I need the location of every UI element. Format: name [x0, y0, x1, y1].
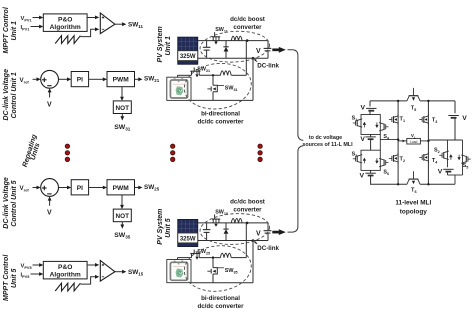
wire PV to boost bottom rail unit 1	[198, 57, 268, 59]
wire leg T1 T2	[397, 101, 399, 184]
wire V feedback to summer unit 5	[49, 199, 51, 206]
svg-text:PI: PI	[77, 77, 83, 84]
svg-text:dc/dc boost: dc/dc boost	[230, 198, 265, 205]
svg-text:dc/dc converter: dc/dc converter	[197, 303, 244, 310]
comparator unit 5	[100, 261, 115, 282]
battery V1 left	[366, 107, 376, 109]
wire Vref to summer unit 5	[33, 187, 39, 189]
node bidirectional midpoint unit 5	[212, 256, 214, 258]
dc output thick arrow unit 1	[272, 48, 279, 51]
wire V feedback to summer unit 1	[49, 91, 51, 98]
battery box wire unit 5	[167, 260, 191, 283]
svg-text:converter: converter	[233, 206, 262, 213]
svg-text:P&O: P&O	[58, 264, 72, 271]
svg-text:V: V	[438, 169, 443, 176]
svg-text:topology: topology	[400, 208, 427, 215]
boost converter dashed ellipse unit 1	[199, 29, 270, 64]
wire P&O to comparator unit 5	[87, 264, 96, 266]
svg-text:PV System: PV System	[157, 209, 164, 245]
wire load right	[420, 140, 428, 142]
wire battery to SW25 unit 5	[178, 257, 192, 259]
svg-text:11-level MLI: 11-level MLI	[395, 199, 431, 206]
battery icon unit 5	[170, 262, 187, 280]
bidirectional switch SW21 unit 1	[191, 71, 193, 75]
svg-text:Control Unit 1: Control Unit 1	[11, 72, 18, 118]
label Repeating Units	[22, 133, 39, 168]
svg-text:V: V	[47, 102, 52, 109]
PI controller box unit 5	[71, 180, 88, 195]
wire SW21 to inductor unit 1	[199, 74, 220, 76]
battery V right top	[448, 115, 458, 117]
boost switch SW15 mosfet unit 5	[212, 219, 214, 223]
svg-text:Algorithm: Algorithm	[50, 24, 81, 31]
repeating dots right column	[258, 144, 262, 148]
label DC-link unit 1	[255, 59, 258, 62]
wire inductor to DC-link unit 1	[231, 74, 246, 76]
node DC-link positive unit 1	[246, 39, 249, 42]
svg-text:MPPT Control: MPPT Control	[3, 254, 10, 301]
P&O Algorithm box unit 5	[43, 261, 87, 279]
svg-text:Unit 1: Unit 1	[165, 36, 172, 56]
bidirectional converter dashed ellipse unit 1	[182, 60, 254, 113]
svg-text:PWM: PWM	[113, 185, 130, 192]
svg-text:DC-link Voltage: DC-link Voltage	[3, 177, 10, 229]
svg-text:DC-link: DC-link	[257, 63, 279, 70]
svg-text:P&O: P&O	[58, 16, 72, 23]
node bidirectional midpoint unit 1	[212, 74, 214, 76]
PWM box unit 5	[107, 180, 135, 195]
wire PV to boost top rail unit 1	[198, 40, 268, 42]
svg-text:325W: 325W	[180, 54, 196, 60]
node load right	[427, 140, 429, 142]
wire PWM to NOT unit 1	[121, 87, 123, 99]
wire summer to PI unit 5	[59, 187, 69, 189]
battery V2 left	[365, 136, 375, 138]
bidirectional switch SW25 unit 5	[191, 254, 193, 258]
PV panel unit 1	[178, 37, 198, 64]
wire Vpv5 to P&O box	[33, 264, 42, 266]
PI controller box unit 1	[71, 72, 88, 87]
summing junction unit 1	[41, 70, 59, 88]
wire sawtooth to comparator unit 1	[80, 29, 96, 36]
wire bidirectional bottom rail unit 5	[191, 282, 253, 284]
svg-text:NOT: NOT	[116, 213, 130, 220]
switch SW35 unit 5	[212, 258, 214, 268]
transistor T2	[397, 153, 399, 155]
transistor T3	[427, 114, 429, 116]
wire load left	[398, 140, 407, 142]
transistor T6	[407, 179, 420, 184]
wire PWM output SW21	[135, 78, 140, 80]
label MPPT Control Unit 5	[3, 254, 10, 301]
svg-text:sources of 11-L MLI: sources of 11-L MLI	[302, 142, 353, 148]
svg-text:325W: 325W	[180, 237, 196, 243]
svg-text:dc/dc boost: dc/dc boost	[230, 16, 265, 23]
label DC-link unit 5	[255, 242, 258, 245]
boost switch SW11 mosfet unit 1	[212, 37, 214, 41]
svg-text:PI: PI	[77, 185, 83, 192]
bidirectional inductor unit 1	[220, 71, 231, 75]
switch SW31 unit 1	[212, 75, 214, 85]
DC-link capacitor unit 1	[267, 41, 269, 49]
switch pair S2 S5 box	[447, 140, 449, 167]
brace from bottom DC-link to MLI sources	[288, 146, 304, 232]
NOT gate box unit 1	[113, 101, 131, 114]
bidirectional inductor unit 5	[220, 253, 231, 257]
switch pair S1 S4 box	[361, 115, 380, 135]
wire P&O to comparator unit 1	[87, 17, 96, 19]
wire between pair boxes left	[370, 135, 372, 137]
svg-text:V: V	[256, 230, 261, 237]
wire PI to PWM unit 5	[89, 187, 105, 189]
wire right leg top	[454, 101, 456, 113]
bidirectional converter dashed ellipse unit 5	[182, 242, 254, 295]
PWM box unit 1	[107, 72, 135, 87]
wire leg T3 T4	[427, 101, 429, 184]
wire PWM output SW25	[135, 187, 140, 189]
wire Vpv1 to P&O box	[33, 17, 42, 19]
sawtooth carrier unit 5	[55, 283, 80, 291]
battery V3 left	[365, 172, 375, 174]
battery icon unit 1	[170, 80, 187, 98]
boost inductor unit 5	[231, 219, 242, 223]
svg-text:bi-directional: bi-directional	[201, 111, 240, 118]
load box	[407, 138, 421, 144]
wire summer to PI unit 1	[59, 78, 69, 80]
svg-text:PV System: PV System	[157, 26, 164, 62]
dc output thick arrow unit 5	[272, 231, 279, 234]
node DC-link positive unit 5	[246, 222, 249, 225]
svg-text:to dc voltage: to dc voltage	[309, 135, 342, 141]
wire Ipv1 to P&O box	[31, 26, 42, 28]
wire NOT output SW35	[121, 222, 123, 226]
svg-text:MPPT Control: MPPT Control	[3, 6, 10, 53]
input capacitor unit 1	[206, 41, 208, 48]
svg-text:Load: Load	[410, 140, 418, 144]
wire inductor to DC-link unit 5	[231, 257, 246, 259]
battery V right bottom	[443, 168, 453, 170]
PV panel power label 325W unit 1	[178, 51, 198, 61]
svg-text:Control Unit 5: Control Unit 5	[11, 180, 18, 226]
label DC-link Voltage Control Unit 1	[3, 69, 10, 121]
svg-text:DC-link Voltage: DC-link Voltage	[3, 69, 10, 121]
wire right leg bottom	[447, 172, 449, 175]
node DC-link negative unit 5	[252, 239, 255, 242]
boost converter dashed ellipse unit 5	[199, 212, 270, 247]
PV panel unit 5	[178, 220, 198, 247]
wire left leg top	[369, 101, 371, 107]
wire PWM to NOT unit 5	[121, 195, 123, 207]
sawtooth carrier unit 1	[55, 36, 80, 44]
boost diode unit 5	[225, 223, 227, 229]
label DC-link Voltage Control Unit 5	[3, 177, 10, 229]
repeating dots left column	[65, 144, 69, 148]
wire right pair top edge	[428, 139, 462, 141]
P&O Algorithm box unit 1	[43, 14, 87, 32]
comparator unit 1	[100, 13, 115, 34]
transistor T4	[427, 152, 429, 154]
label PV System Unit 5	[157, 209, 164, 245]
wire left pair taps to load node	[379, 135, 381, 151]
label MPPT Control Unit 1	[3, 6, 10, 53]
svg-text:Unit 5: Unit 5	[165, 218, 172, 238]
wire PV to boost bottom rail unit 5	[198, 240, 268, 242]
svg-text:dc/dc converter: dc/dc converter	[197, 119, 244, 126]
wire battery to SW21 unit 1	[178, 74, 192, 76]
NOT gate box unit 5	[113, 209, 131, 222]
node load left	[397, 138, 399, 140]
node DC-link negative unit 1	[252, 57, 255, 60]
wire Vref to summer unit 1	[33, 78, 39, 80]
wire MLI bottom rail	[370, 183, 407, 185]
wire SW25 to inductor unit 5	[199, 257, 220, 259]
label PV System Unit 1	[157, 26, 164, 62]
PV panel power label 325W unit 5	[178, 233, 198, 243]
svg-text:V: V	[256, 48, 261, 55]
boost diode unit 1	[225, 41, 227, 47]
battery box wire unit 1	[167, 77, 191, 100]
svg-text:converter: converter	[233, 24, 262, 31]
transistor T1	[397, 114, 399, 116]
input capacitor unit 5	[206, 223, 208, 230]
svg-text:V: V	[360, 136, 365, 143]
svg-text:bi-directional: bi-directional	[201, 295, 240, 302]
wire comparator output SW11	[115, 23, 124, 25]
svg-text:V: V	[47, 210, 52, 217]
wire battery to pair box right	[454, 118, 456, 140]
wire sawtooth to comparator unit 5	[80, 277, 96, 284]
svg-text:Unit 5: Unit 5	[11, 268, 18, 288]
wire MLI top rail	[370, 100, 407, 102]
brace from top DC-link to MLI sources	[288, 50, 304, 141]
svg-text:NOT: NOT	[116, 105, 130, 112]
svg-text:V: V	[361, 104, 366, 111]
wire PV to boost top rail unit 5	[198, 222, 268, 224]
wire bidirectional bottom rail unit 1	[191, 99, 253, 101]
svg-text:DC-link: DC-link	[257, 245, 279, 252]
svg-text:Unit 1: Unit 1	[11, 21, 18, 41]
repeating dots middle column	[171, 144, 175, 148]
svg-text:Algorithm: Algorithm	[50, 272, 81, 279]
svg-text:V: V	[462, 115, 467, 122]
transistor T5	[407, 96, 420, 101]
wire PI to PWM unit 1	[89, 78, 105, 80]
svg-text:PWM: PWM	[113, 77, 130, 84]
summing junction unit 5	[41, 179, 59, 197]
wire NOT output SW31	[121, 114, 123, 118]
wire Ipv5 to P&O box	[31, 273, 42, 275]
svg-text:V: V	[360, 172, 365, 179]
switch pair S3 S6 box	[361, 150, 380, 170]
wire comparator output SW15	[115, 271, 124, 273]
wire to battery V3 left	[370, 170, 372, 173]
DC-link capacitor unit 5	[267, 223, 269, 231]
boost inductor unit 1	[231, 36, 242, 40]
